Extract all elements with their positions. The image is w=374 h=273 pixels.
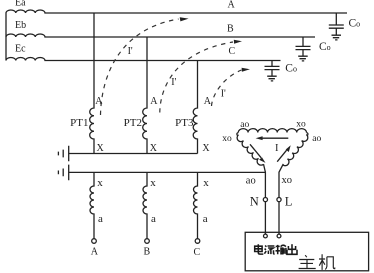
svg-text:PT1: PT1 <box>70 117 88 129</box>
svg-text:Co: Co <box>319 41 331 53</box>
svg-text:Co: Co <box>349 18 361 30</box>
svg-text:xo: xo <box>282 175 293 186</box>
svg-text:ao: ao <box>246 176 256 187</box>
svg-text:x: x <box>150 177 156 189</box>
svg-text:PT2: PT2 <box>124 117 142 129</box>
svg-text:C: C <box>229 46 236 57</box>
svg-text:A: A <box>228 0 236 11</box>
svg-text:X: X <box>150 143 158 154</box>
svg-text:x: x <box>97 177 103 189</box>
svg-text:A: A <box>204 96 212 107</box>
svg-text:a: a <box>98 213 103 225</box>
svg-text:I': I' <box>221 88 226 99</box>
svg-text:Ec: Ec <box>15 44 26 55</box>
svg-text:I: I <box>275 143 279 154</box>
svg-text:a: a <box>151 213 156 225</box>
svg-text:PT3: PT3 <box>175 117 194 129</box>
svg-text:C: C <box>194 247 201 258</box>
svg-text:X: X <box>97 143 105 154</box>
svg-text:a: a <box>203 213 208 225</box>
svg-text:N: N <box>250 194 259 208</box>
svg-text:Co: Co <box>285 63 297 75</box>
svg-text:I': I' <box>128 46 133 57</box>
svg-text:Ea: Ea <box>15 0 26 9</box>
svg-text:L: L <box>285 194 293 208</box>
svg-text:ao: ao <box>240 120 249 130</box>
svg-text:ao: ao <box>312 134 321 144</box>
svg-text:X: X <box>202 143 210 154</box>
svg-text:B: B <box>227 24 234 35</box>
svg-text:A: A <box>91 247 99 258</box>
svg-text:A: A <box>150 96 158 107</box>
svg-text:x: x <box>203 177 209 189</box>
svg-text:Eb: Eb <box>15 20 26 31</box>
svg-text:xo: xo <box>296 119 306 129</box>
svg-text:I': I' <box>171 77 176 88</box>
svg-text:B: B <box>144 247 151 258</box>
svg-text:A: A <box>95 96 103 107</box>
svg-text:xo: xo <box>222 134 232 144</box>
